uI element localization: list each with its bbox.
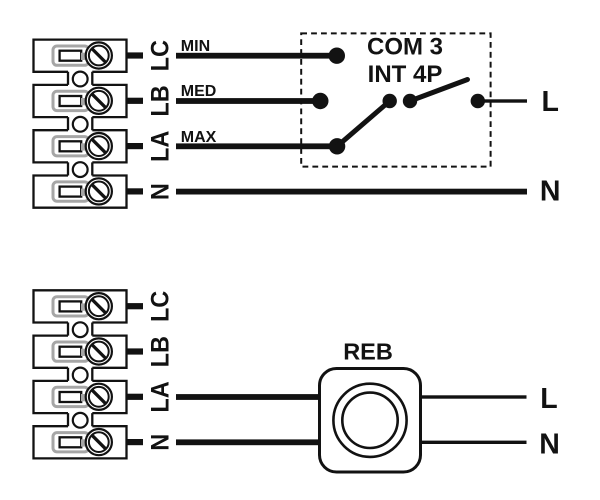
switch enclosure COM 3 INT 4P (dashed) [301,33,490,166]
wire MED (LB to switch common) [176,98,320,104]
svg-text:N: N [147,183,175,200]
terminal X1-LA screw/slot detail and stub [53,133,143,159]
dimmer knob inner ring [342,393,397,448]
terminal block X1 unit N body [34,176,127,208]
interlock neck between X1 units LA/N [68,162,92,175]
svg-text:L: L [541,86,558,118]
svg-text:LB: LB [147,336,175,367]
wire N (top, terminal to N) [176,189,527,195]
interlock neck between X2 units LC/LB [68,323,92,336]
interlock hole [73,413,88,428]
svg-text:COM 3: COM 3 [367,34,443,61]
interlock hole [73,162,88,177]
svg-text:REB: REB [343,339,393,365]
node MAX contact [329,138,345,154]
svg-text:N: N [540,176,561,208]
terminal X1-LC screw/slot detail and stub [53,42,143,68]
svg-text:MAX: MAX [181,129,217,146]
interlock hole [73,117,88,132]
svg-text:MIN: MIN [181,38,210,55]
terminal block X1 unit LA body [34,130,127,162]
terminal X1-N screw/slot detail and stub [53,178,143,204]
wire L output (bottom) [421,395,527,398]
svg-text:N: N [539,429,560,461]
dimmer REB body [320,369,421,473]
switch lever open arm [410,80,468,102]
wire LA to REB [176,394,321,400]
interlock neck between X1 units LB/LA [68,117,92,130]
interlock hole [73,368,88,383]
node MIN contact [329,48,345,64]
svg-text:LA: LA [147,381,175,412]
interlock hole [73,322,88,337]
terminal block X1 unit LC body [34,40,127,72]
node MED contact [312,93,328,109]
terminal X2-LC screw/slot detail and stub [53,293,143,319]
svg-text:LA: LA [147,131,175,162]
svg-text:MED: MED [181,83,217,100]
terminal block X1 unit LB body [34,85,127,117]
terminal X1-LB screw/slot detail and stub [53,88,143,114]
wire N output (bottom) [421,441,527,444]
node pivot b [403,94,417,108]
wire L output (top) [478,99,527,102]
wire N to REB [176,439,321,445]
terminal X2-LB screw/slot detail and stub [53,338,143,364]
terminal block X2 unit LB body [34,336,127,368]
svg-text:INT 4P: INT 4P [368,61,443,88]
node L output contact [471,94,485,108]
dimmer knob outer ring [333,384,406,457]
interlock hole [73,72,88,87]
terminal block X2 unit N body [34,426,127,458]
wire MAX (LA to switch) [176,143,337,149]
interlock neck between X1 units LC/LB [68,72,92,85]
wire MIN (LC to switch) [176,53,337,59]
terminal block X2 unit LC body [34,290,127,322]
node pivot a [383,94,397,108]
terminal block X2 unit LA body [34,381,127,413]
terminal X2-LA screw/slot detail and stub [53,384,143,410]
interlock neck between X2 units LB/LA [68,368,92,381]
svg-text:LB: LB [147,85,175,116]
svg-text:LC: LC [147,40,175,71]
interlock neck between X2 units LA/N [68,413,92,426]
switch lever from MAX contact [337,101,390,146]
terminal X2-N screw/slot detail and stub [53,429,143,455]
svg-text:N: N [147,434,175,451]
svg-text:L: L [540,383,557,415]
svg-text:LC: LC [147,291,175,322]
